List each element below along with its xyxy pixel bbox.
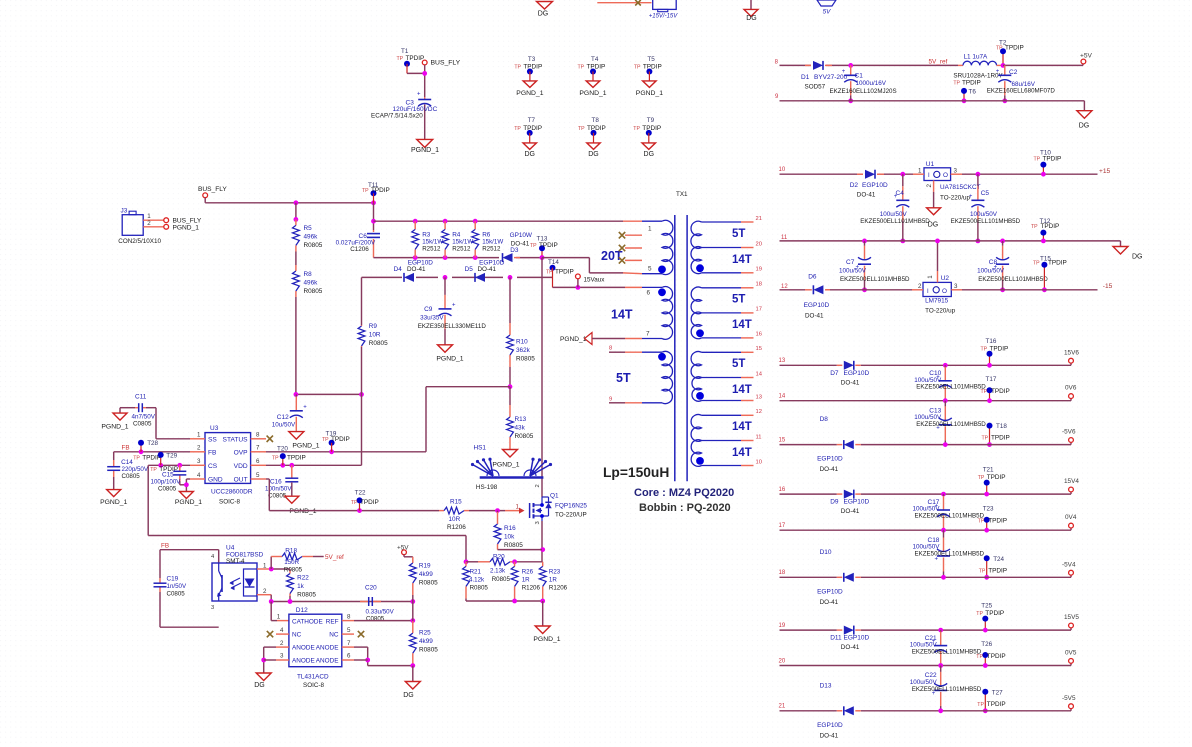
svg-text:C5: C5 bbox=[981, 190, 990, 197]
diode D5 EGP10D bbox=[465, 260, 505, 282]
wire gate bbox=[469, 504, 525, 514]
testpoint T1 bbox=[397, 48, 425, 73]
svg-text:DG: DG bbox=[1132, 254, 1143, 261]
svg-text:TPDIP: TPDIP bbox=[539, 242, 558, 249]
svg-text:R20: R20 bbox=[493, 553, 505, 560]
svg-text:R0805: R0805 bbox=[297, 592, 316, 599]
testpoint T7 bbox=[514, 117, 542, 143]
svg-text:-5V5: -5V5 bbox=[1062, 695, 1076, 702]
svg-text:EGP10D: EGP10D bbox=[817, 588, 843, 595]
primary winding 14T (pins 6-7) bbox=[611, 287, 673, 340]
svg-text:1R: 1R bbox=[522, 577, 530, 584]
capacitor C20 bbox=[360, 585, 395, 623]
connector J? +15V/-15V (fragment) bbox=[649, 0, 679, 20]
ground DG (top-mid fragment) bbox=[744, 0, 758, 22]
svg-text:2: 2 bbox=[263, 588, 267, 595]
optocoupler U4 FOD817BSD bbox=[211, 545, 267, 612]
svg-text:T21: T21 bbox=[983, 467, 994, 474]
svg-text:TP: TP bbox=[979, 568, 986, 574]
svg-text:T22: T22 bbox=[355, 490, 366, 497]
svg-text:C0805: C0805 bbox=[366, 616, 385, 623]
svg-text:DG: DG bbox=[644, 151, 655, 158]
net 12 rail wire bbox=[780, 284, 1098, 290]
heatsink HS1 bbox=[471, 445, 552, 492]
ground DG (top-left fragment) bbox=[537, 2, 553, 18]
wire GND pin (U3) bbox=[184, 479, 190, 492]
svg-text:+5V: +5V bbox=[397, 544, 409, 551]
svg-text:1: 1 bbox=[927, 275, 934, 279]
svg-text:5T: 5T bbox=[616, 371, 631, 385]
testpoint T28 bbox=[133, 440, 161, 462]
svg-text:FB: FB bbox=[208, 449, 217, 456]
net 17 rail wire bbox=[779, 523, 1072, 530]
diode D2 EGP10D bbox=[850, 170, 888, 199]
no-connect pins 2-4 (TX1) bbox=[619, 232, 642, 264]
svg-text:EGP10D: EGP10D bbox=[817, 722, 843, 729]
svg-text:6: 6 bbox=[647, 289, 651, 296]
svg-text:19: 19 bbox=[779, 623, 786, 629]
svg-text:R10: R10 bbox=[516, 339, 528, 346]
svg-text:1: 1 bbox=[516, 504, 520, 511]
svg-text:13: 13 bbox=[756, 394, 762, 400]
svg-text:R16: R16 bbox=[504, 525, 516, 532]
svg-text:D11: D11 bbox=[830, 635, 842, 642]
svg-text:CON2/5/10X10: CON2/5/10X10 bbox=[118, 238, 161, 245]
svg-text:1: 1 bbox=[918, 167, 922, 174]
svg-text:C7: C7 bbox=[846, 259, 855, 266]
svg-text:C9: C9 bbox=[424, 306, 433, 313]
svg-text:R25: R25 bbox=[419, 630, 431, 637]
svg-text:R0805: R0805 bbox=[515, 433, 534, 440]
svg-text:TPDIP: TPDIP bbox=[587, 125, 606, 132]
svg-text:TP: TP bbox=[633, 126, 640, 132]
svg-text:+15: +15 bbox=[1099, 168, 1111, 175]
wire snubber top rail bbox=[374, 219, 624, 224]
svg-text:TX1: TX1 bbox=[676, 191, 688, 198]
svg-text:EKZE500ELL101MHB5D: EKZE500ELL101MHB5D bbox=[951, 218, 1021, 225]
terminal 15V4 bbox=[1064, 478, 1079, 494]
svg-text:Lp=150uH: Lp=150uH bbox=[603, 465, 669, 480]
net 9 rail wire bbox=[775, 94, 1084, 111]
svg-text:10R: 10R bbox=[369, 332, 381, 339]
svg-text:+15V/-15V: +15V/-15V bbox=[649, 14, 679, 20]
ground DG (R25) bbox=[403, 682, 420, 700]
svg-text:TP: TP bbox=[977, 702, 984, 708]
ground PGND_1 (C9) bbox=[436, 345, 463, 363]
wire OVP line bbox=[266, 449, 426, 454]
net label FB (opto) bbox=[161, 543, 169, 550]
regulator U1 UA7815CKCT bbox=[913, 161, 981, 202]
svg-text:5T: 5T bbox=[732, 294, 745, 306]
resistor R4 15k/1W bbox=[442, 221, 474, 257]
ground DG (rail 9) bbox=[1077, 111, 1092, 130]
svg-text:12: 12 bbox=[756, 409, 762, 415]
svg-text:1R: 1R bbox=[549, 577, 557, 584]
svg-text:0V5: 0V5 bbox=[1065, 650, 1077, 657]
svg-text:5V_ref: 5V_ref bbox=[929, 59, 948, 66]
svg-text:R4: R4 bbox=[452, 232, 461, 239]
svg-text:-5V6: -5V6 bbox=[1062, 429, 1076, 436]
svg-text:17: 17 bbox=[779, 523, 786, 529]
svg-text:D3: D3 bbox=[510, 247, 519, 254]
svg-text:T3: T3 bbox=[528, 56, 536, 63]
svg-text:C12: C12 bbox=[277, 414, 289, 421]
diode D9 EGP10D bbox=[830, 490, 869, 515]
no-connect X (U3 STATUS) bbox=[267, 436, 273, 442]
capacitor C13 bbox=[914, 398, 986, 444]
svg-text:R0805: R0805 bbox=[284, 567, 303, 574]
svg-text:PGND_1: PGND_1 bbox=[289, 508, 316, 515]
svg-text:33u/35V: 33u/35V bbox=[420, 315, 444, 322]
svg-text:TPDIP: TPDIP bbox=[987, 653, 1006, 660]
testpoint T9 bbox=[633, 117, 661, 143]
svg-text:EGP10D: EGP10D bbox=[862, 182, 888, 189]
ground PGND_1 (C12) bbox=[289, 432, 320, 450]
regulator U2 LM7915 bbox=[912, 239, 962, 315]
svg-text:TP: TP bbox=[514, 126, 521, 132]
testpoint T25 bbox=[976, 603, 1004, 633]
pin stub 6 (TX1) bbox=[625, 286, 642, 288]
connector J3 bbox=[118, 208, 164, 246]
terminal PGND_1 (J3 pin 2) bbox=[164, 224, 199, 231]
svg-text:TPDIP: TPDIP bbox=[990, 345, 1009, 352]
svg-text:TP: TP bbox=[322, 437, 329, 443]
svg-text:14: 14 bbox=[756, 371, 763, 377]
capacitor C11 bbox=[120, 394, 190, 439]
svg-text:C0805: C0805 bbox=[133, 421, 152, 428]
svg-text:ANODE: ANODE bbox=[292, 658, 315, 665]
wire FB line bbox=[114, 445, 190, 455]
net 21 rail wire bbox=[779, 704, 1072, 714]
pin stub 17 (TX1 sec) bbox=[741, 307, 762, 313]
pin stub 16 (TX1 sec) bbox=[741, 332, 762, 338]
svg-text:O: O bbox=[943, 172, 948, 179]
svg-text:R0805: R0805 bbox=[516, 356, 535, 363]
svg-text:TP: TP bbox=[546, 270, 553, 276]
svg-text:9: 9 bbox=[609, 397, 612, 403]
svg-text:1000u/16V: 1000u/16V bbox=[856, 80, 887, 87]
capacitor C8 bbox=[977, 239, 1048, 293]
wire CS to sense rail bbox=[148, 536, 468, 565]
svg-text:8: 8 bbox=[609, 346, 612, 352]
testpoint T16 bbox=[981, 338, 1009, 368]
pin stub 19 (TX1 sec) bbox=[741, 267, 762, 273]
svg-text:TPDIP: TPDIP bbox=[360, 499, 379, 506]
svg-text:1: 1 bbox=[277, 613, 281, 620]
svg-text:EKZE160ELL102MJ20S: EKZE160ELL102MJ20S bbox=[830, 88, 897, 95]
testpoint T2 bbox=[996, 40, 1024, 68]
net 18 rail wire bbox=[779, 570, 1072, 580]
svg-text:EKZE500ELL101MHB5D: EKZE500ELL101MHB5D bbox=[912, 686, 982, 693]
wire OUT line bbox=[266, 479, 439, 513]
svg-text:TP: TP bbox=[976, 611, 983, 617]
pin stub 20 (TX1 sec) bbox=[741, 241, 762, 247]
terminal 15V5 bbox=[1064, 614, 1079, 630]
diode D1 BYV27-200 bbox=[801, 61, 848, 91]
capacitor C9 bbox=[418, 277, 487, 344]
svg-text:10: 10 bbox=[756, 459, 762, 465]
svg-text:4: 4 bbox=[197, 472, 201, 479]
svg-text:+5V: +5V bbox=[1080, 53, 1093, 60]
ground PGND_1 (T4) bbox=[579, 81, 606, 97]
capacitor C17 bbox=[913, 492, 985, 531]
net flag PGND_1 (TX1 pin 7) bbox=[560, 333, 642, 345]
svg-text:+: + bbox=[996, 69, 1000, 75]
net 13 rail wire bbox=[779, 358, 1072, 365]
svg-text:1n/50V: 1n/50V bbox=[167, 583, 187, 590]
svg-text:C19: C19 bbox=[167, 576, 179, 583]
svg-text:TP: TP bbox=[530, 243, 537, 249]
svg-text:J3: J3 bbox=[121, 208, 128, 215]
resistor R8 496k bbox=[293, 252, 323, 298]
svg-text:TPDIP: TPDIP bbox=[1048, 260, 1067, 267]
svg-text:EKZE160ELL680MF07D: EKZE160ELL680MF07D bbox=[987, 88, 1056, 95]
testpoint T12 bbox=[1031, 218, 1059, 243]
svg-text:R0805: R0805 bbox=[369, 340, 388, 347]
svg-text:3: 3 bbox=[954, 167, 958, 174]
svg-text:EGP10D: EGP10D bbox=[804, 302, 830, 309]
svg-text:1k: 1k bbox=[297, 583, 305, 590]
svg-text:EKZE500ELL101MHB5D: EKZE500ELL101MHB5D bbox=[840, 276, 910, 283]
svg-text:HS-198: HS-198 bbox=[476, 484, 498, 491]
svg-text:FB: FB bbox=[122, 445, 130, 452]
svg-text:100u/50V: 100u/50V bbox=[970, 211, 998, 218]
svg-text:T27: T27 bbox=[992, 689, 1003, 696]
wire pin 9 (net 9) bbox=[609, 402, 642, 404]
svg-text:100p/100V: 100p/100V bbox=[151, 479, 182, 486]
resistor R22 1k bbox=[287, 569, 317, 602]
svg-text:4.12k: 4.12k bbox=[469, 577, 485, 584]
no-connect X (D12 pin4) bbox=[267, 631, 273, 637]
svg-text:T7: T7 bbox=[528, 117, 536, 124]
wire pin6 link bbox=[553, 285, 626, 290]
diode D6 EGP10D bbox=[804, 274, 830, 320]
svg-text:O: O bbox=[942, 288, 947, 295]
svg-text:T24: T24 bbox=[993, 556, 1004, 563]
svg-text:C11: C11 bbox=[135, 394, 147, 401]
svg-text:TPDIP: TPDIP bbox=[985, 610, 1004, 617]
svg-text:SOIC-8: SOIC-8 bbox=[219, 499, 240, 506]
svg-text:R0805: R0805 bbox=[492, 576, 511, 583]
svg-text:D1: D1 bbox=[801, 74, 810, 81]
wire BUS_FLY main bbox=[205, 198, 376, 206]
svg-text:CATHODE: CATHODE bbox=[292, 618, 323, 625]
svg-text:5T: 5T bbox=[732, 228, 745, 240]
svg-text:1: 1 bbox=[648, 226, 652, 233]
svg-text:FQP16N25: FQP16N25 bbox=[555, 502, 587, 509]
svg-text:R21: R21 bbox=[470, 569, 482, 576]
resistor R23 1R bbox=[539, 562, 567, 601]
svg-text:VDD: VDD bbox=[234, 463, 248, 470]
svg-text:R2512: R2512 bbox=[422, 246, 441, 253]
svg-text:TPDIP: TPDIP bbox=[331, 436, 350, 443]
capacitor C2 bbox=[987, 65, 1083, 103]
svg-text:7: 7 bbox=[347, 640, 351, 647]
wire sense bottom rail bbox=[466, 599, 545, 626]
diode D10 EGP10D bbox=[817, 549, 861, 606]
terminal 0V6 bbox=[1065, 385, 1077, 401]
pin stub 1 (TX1) bbox=[623, 220, 642, 222]
svg-text:TP: TP bbox=[976, 654, 983, 660]
svg-text:UCC28600DR: UCC28600DR bbox=[211, 489, 253, 496]
svg-text:STATUS: STATUS bbox=[223, 436, 249, 443]
testpoint T3 bbox=[514, 56, 542, 81]
svg-text:13: 13 bbox=[779, 358, 786, 364]
svg-text:DO-41: DO-41 bbox=[820, 466, 839, 473]
svg-text:R1206: R1206 bbox=[549, 585, 568, 592]
svg-text:ANODE: ANODE bbox=[316, 645, 339, 652]
svg-text:EKZE500ELL101MHB5D: EKZE500ELL101MHB5D bbox=[860, 218, 930, 225]
svg-text:R8: R8 bbox=[304, 271, 313, 278]
svg-text:14T: 14T bbox=[732, 319, 752, 331]
svg-text:TP: TP bbox=[362, 188, 369, 194]
svg-text:C1206: C1206 bbox=[350, 246, 369, 253]
svg-text:16: 16 bbox=[756, 332, 762, 338]
wire drain (TX1 pin5 to Q1) bbox=[541, 258, 543, 497]
capacitor C3 bbox=[371, 92, 438, 140]
wire opto pin2 to TL431 node bbox=[257, 595, 415, 604]
svg-text:EGP10D: EGP10D bbox=[844, 370, 870, 377]
svg-text:TPDIP: TPDIP bbox=[587, 63, 606, 70]
svg-text:EKZE350ELL330ME11D: EKZE350ELL330ME11D bbox=[418, 323, 487, 330]
svg-text:TL431ACD: TL431ACD bbox=[297, 673, 329, 680]
net 14 rail wire bbox=[779, 394, 1072, 401]
svg-text:+: + bbox=[303, 404, 307, 410]
svg-text:14: 14 bbox=[779, 394, 786, 400]
svg-text:DO-41: DO-41 bbox=[841, 644, 860, 651]
svg-text:TPDIP: TPDIP bbox=[962, 80, 981, 87]
transformer core bbox=[675, 215, 687, 481]
svg-text:T4: T4 bbox=[591, 56, 599, 63]
ground DG (rail 11) bbox=[1113, 247, 1143, 261]
svg-text:T18: T18 bbox=[996, 423, 1007, 430]
svg-text:GND: GND bbox=[208, 477, 223, 484]
IC D12 TL431ACD bbox=[276, 607, 354, 689]
wire aux line bbox=[362, 275, 553, 280]
svg-text:PGND_1: PGND_1 bbox=[579, 90, 606, 97]
svg-text:D10: D10 bbox=[820, 549, 832, 556]
svg-text:7: 7 bbox=[646, 331, 650, 338]
net 11 rail wire bbox=[780, 235, 1121, 247]
inductor L1 bbox=[953, 54, 1003, 80]
svg-text:C8: C8 bbox=[989, 259, 998, 266]
svg-text:15V5: 15V5 bbox=[1064, 614, 1079, 621]
svg-text:-15: -15 bbox=[1103, 283, 1113, 290]
svg-text:EGP10D: EGP10D bbox=[844, 635, 870, 642]
svg-text:BUS_FLY: BUS_FLY bbox=[431, 60, 461, 67]
wire to +15V/-15V connector fragment bbox=[597, 0, 651, 5]
testpoint T14 bbox=[546, 259, 574, 287]
terminal -5V4 bbox=[1062, 561, 1076, 577]
svg-text:U1: U1 bbox=[926, 161, 935, 168]
net label -15 bbox=[1103, 283, 1113, 290]
ground PGND_1 (C16) bbox=[285, 496, 317, 515]
svg-text:220p/50V: 220p/50V bbox=[122, 466, 149, 473]
svg-text:C0805: C0805 bbox=[158, 486, 177, 493]
svg-text:TPDIP: TPDIP bbox=[1043, 156, 1062, 163]
capacitor C19 bbox=[154, 550, 219, 628]
net label 5V_ref (rail 8) bbox=[929, 59, 948, 66]
svg-text:18: 18 bbox=[756, 282, 762, 288]
svg-text:3: 3 bbox=[954, 283, 958, 290]
svg-text:4: 4 bbox=[280, 627, 284, 634]
svg-text:8: 8 bbox=[347, 613, 351, 620]
net 10 rail wire bbox=[779, 167, 1098, 174]
svg-text:TO-220/up: TO-220/up bbox=[925, 308, 955, 315]
terminal BUS_FLY (main) bbox=[198, 186, 227, 198]
capacitor C14 bbox=[107, 452, 149, 490]
wire opto pin1 bbox=[257, 567, 290, 572]
svg-text:R1206: R1206 bbox=[522, 585, 541, 592]
svg-text:C14: C14 bbox=[121, 459, 133, 466]
svg-text:496k: 496k bbox=[304, 280, 319, 287]
svg-text:T25: T25 bbox=[981, 603, 992, 610]
svg-text:4k99: 4k99 bbox=[419, 571, 433, 578]
svg-text:100u/50V: 100u/50V bbox=[839, 268, 867, 275]
svg-text:TP: TP bbox=[1033, 261, 1040, 267]
ground PGND_1 (C11) bbox=[101, 413, 128, 430]
svg-text:EGP10D: EGP10D bbox=[844, 499, 870, 506]
wire snubber bottom rail bbox=[374, 255, 545, 260]
svg-text:TPDIP: TPDIP bbox=[988, 567, 1007, 574]
svg-text:DG: DG bbox=[1079, 123, 1090, 130]
capacitor C16 bbox=[265, 465, 298, 499]
svg-text:TP: TP bbox=[978, 475, 985, 481]
svg-text:T29: T29 bbox=[166, 452, 177, 459]
resistor R21 4.12k bbox=[463, 562, 489, 601]
terminal +5V bbox=[1080, 53, 1093, 66]
svg-text:T23: T23 bbox=[983, 506, 994, 513]
svg-text:-5V4: -5V4 bbox=[1062, 561, 1076, 568]
svg-text:C0805: C0805 bbox=[167, 591, 186, 598]
capacitor C7 bbox=[839, 239, 910, 293]
svg-text:16: 16 bbox=[779, 487, 786, 493]
svg-text:C0805: C0805 bbox=[122, 473, 141, 480]
wire VDD line bbox=[266, 463, 362, 468]
svg-text:T20: T20 bbox=[277, 446, 288, 453]
svg-text:5: 5 bbox=[648, 265, 652, 272]
svg-text:R5: R5 bbox=[304, 225, 313, 232]
svg-text:R3: R3 bbox=[422, 232, 431, 239]
pin stub 21 (TX1 sec) bbox=[741, 216, 762, 222]
wire R25 to DG bbox=[412, 666, 414, 682]
svg-text:TP: TP bbox=[514, 64, 521, 70]
svg-text:R1206: R1206 bbox=[447, 524, 466, 531]
pin stub 18 (TX1 sec) bbox=[741, 282, 762, 288]
resistor R13 43k bbox=[507, 387, 534, 450]
net 20 rail wire bbox=[779, 658, 1072, 665]
svg-text:PGND_1: PGND_1 bbox=[101, 424, 128, 431]
svg-text:R15: R15 bbox=[450, 498, 462, 505]
svg-text:PGND_1: PGND_1 bbox=[492, 462, 519, 469]
ground PGND_1 (R13) bbox=[492, 450, 519, 469]
svg-text:7: 7 bbox=[256, 445, 260, 452]
svg-text:FB: FB bbox=[161, 543, 169, 550]
svg-text:TP: TP bbox=[981, 346, 988, 352]
svg-text:TO-220/UP: TO-220/UP bbox=[555, 512, 587, 519]
wire sense rail right bbox=[512, 559, 543, 564]
wire CS line bbox=[148, 463, 190, 536]
wire TL431 anodes right bbox=[354, 647, 413, 666]
svg-text:20: 20 bbox=[779, 658, 786, 664]
diode D8 EGP10D bbox=[817, 416, 861, 473]
resistor R19 4k99 bbox=[409, 557, 438, 602]
svg-text:TPDIP: TPDIP bbox=[643, 63, 662, 70]
svg-text:5: 5 bbox=[347, 627, 351, 634]
svg-text:TPDIP: TPDIP bbox=[371, 187, 390, 194]
svg-text:TP: TP bbox=[982, 436, 989, 442]
svg-text:HS1: HS1 bbox=[474, 445, 487, 452]
